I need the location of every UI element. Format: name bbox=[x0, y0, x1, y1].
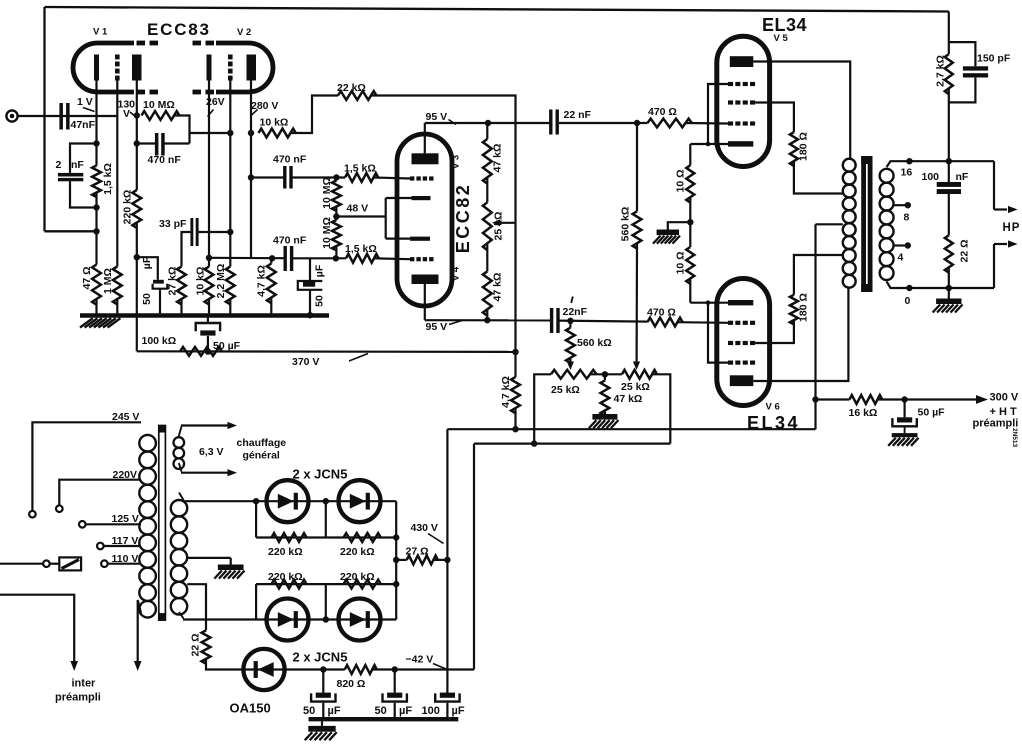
ground PSU bbox=[305, 721, 337, 740]
wire OPT center tap riser bbox=[812, 224, 818, 429]
svg-text:OA150: OA150 bbox=[230, 701, 271, 716]
svg-text:6,3 V: 6,3 V bbox=[199, 446, 224, 458]
resistor 16k dropper bbox=[816, 395, 905, 404]
wire top feedback rail bbox=[45, 7, 949, 12]
label 22 kOhm bbox=[337, 82, 366, 94]
label 100 nF bbox=[922, 171, 969, 183]
svg-text:27 Ω: 27 Ω bbox=[406, 546, 429, 558]
wire V5 cathode out bbox=[690, 143, 728, 145]
svg-text:inter: inter bbox=[72, 678, 97, 690]
ground EL34 cathodes bbox=[653, 230, 680, 244]
svg-text:général: général bbox=[243, 450, 280, 462]
svg-text:2 x JCN5: 2 x JCN5 bbox=[293, 467, 348, 482]
label V6 bbox=[766, 402, 780, 413]
wire V2 anode down bbox=[248, 81, 254, 259]
label +HT bbox=[990, 406, 1017, 418]
wire V4 anode down bbox=[424, 284, 426, 320]
label 470 nF a bbox=[148, 154, 182, 166]
resistor 47k lower bbox=[483, 271, 492, 315]
V1 grid element bbox=[115, 55, 120, 81]
ground 300V cap bbox=[888, 428, 918, 446]
wire 47k to 95V bottom bbox=[484, 309, 490, 323]
capacitor 150pF bbox=[963, 66, 988, 77]
label 110 V bbox=[112, 553, 139, 565]
label 10 Ohm V6 bbox=[675, 251, 687, 274]
label 8 bbox=[904, 212, 910, 224]
svg-text:10 MΩ: 10 MΩ bbox=[143, 99, 175, 111]
resistor 10 Ohm V6 bbox=[686, 247, 694, 284]
wire OPT secondary 0 tap bbox=[887, 282, 994, 292]
svg-text:µF: µF bbox=[328, 705, 341, 717]
label 4 bbox=[898, 252, 904, 264]
wire mains 2 bbox=[0, 595, 78, 671]
V5 g2 element bbox=[728, 100, 755, 104]
ground HV center bbox=[214, 565, 244, 579]
svg-text:50: 50 bbox=[141, 293, 153, 305]
label EL34 V5 bbox=[762, 15, 807, 35]
label 10 MOhm c bbox=[321, 217, 333, 249]
label 470 Ohm low bbox=[647, 307, 676, 319]
svg-text:25 kΩ: 25 kΩ bbox=[493, 212, 505, 241]
wire 1.5k to V3 grid bbox=[374, 178, 411, 179]
input jack terminal bbox=[6, 110, 17, 121]
label OA150 bbox=[230, 701, 271, 716]
svg-text:2,2 MΩ: 2,2 MΩ bbox=[215, 264, 227, 299]
svg-text:370 V: 370 V bbox=[292, 356, 319, 368]
svg-text:1,5 kΩ: 1,5 kΩ bbox=[102, 163, 114, 195]
capacitor 50uF bias B bbox=[383, 693, 407, 702]
wire V5 g2 out bbox=[755, 103, 794, 133]
wire V6 anode to OPT bbox=[753, 288, 848, 381]
label V1 bbox=[93, 27, 108, 38]
label 100 kOhm bbox=[142, 335, 177, 347]
potentiometer 25k bias right bbox=[622, 370, 657, 379]
svg-text:470 nF: 470 nF bbox=[273, 235, 307, 247]
resistor 10M V1-V2 coupling bbox=[142, 111, 180, 120]
resistor 1M V1 grid leak bbox=[113, 267, 122, 305]
capacitor 100nF bbox=[937, 182, 961, 194]
label 2,2 MOhm bbox=[215, 264, 227, 299]
capacitor 50uF bias A wires bbox=[322, 670, 324, 718]
label 22 nF up bbox=[564, 109, 592, 121]
wire V6 g2 out bbox=[755, 320, 794, 343]
annotation tick near 22nF bbox=[571, 297, 573, 304]
wire 220V tap bbox=[59, 480, 141, 506]
wire HV top to diodes bbox=[179, 493, 184, 501]
label 220k B bbox=[340, 546, 375, 558]
V1 anode element bbox=[132, 55, 142, 81]
OPT primary winding bbox=[843, 159, 856, 288]
capacitor 100uF main wires bbox=[446, 693, 448, 717]
label 180 Ohm V6 bbox=[798, 293, 810, 322]
V4 grid element bbox=[410, 257, 434, 261]
wire OPT secondary 8 tap bbox=[894, 202, 912, 208]
wire V3 anode up bbox=[424, 123, 426, 153]
svg-text:25 kΩ: 25 kΩ bbox=[551, 384, 580, 396]
label inter preampli bbox=[55, 678, 101, 704]
svg-text:V 2: V 2 bbox=[237, 27, 251, 38]
label V2 bbox=[237, 27, 251, 38]
wire 22k to B+ vertical bbox=[371, 96, 516, 353]
label V4 bbox=[451, 266, 462, 281]
wire 470nF to riser bbox=[164, 142, 190, 144]
label 470 Ohm up bbox=[648, 106, 677, 118]
svg-text:470 nF: 470 nF bbox=[148, 154, 182, 166]
svg-text:22 kΩ: 22 kΩ bbox=[337, 82, 366, 94]
wire 10k to 22k riser bbox=[291, 96, 339, 134]
svg-text:22 Ω: 22 Ω bbox=[190, 633, 202, 656]
svg-text:47nF: 47nF bbox=[71, 119, 96, 131]
svg-text:ECC83: ECC83 bbox=[147, 20, 211, 39]
wire cathode gnd stub bbox=[668, 222, 691, 229]
svg-text:180 Ω: 180 Ω bbox=[798, 293, 810, 322]
svg-text:EL34: EL34 bbox=[747, 413, 800, 433]
label 10 MOhm b bbox=[321, 177, 333, 209]
svg-text:95 V: 95 V bbox=[426, 321, 448, 333]
OPT core bbox=[861, 156, 872, 292]
diode JCN5 A bbox=[267, 480, 309, 522]
label 33 pF bbox=[159, 218, 187, 230]
label 25 kOhm left bbox=[551, 384, 580, 396]
transformer HV winding bbox=[171, 500, 187, 615]
svg-text:47 Ω: 47 Ω bbox=[81, 266, 93, 289]
label 95 V top bbox=[426, 111, 457, 125]
svg-text:EL34: EL34 bbox=[762, 15, 807, 35]
V1 cathode element bbox=[94, 55, 99, 81]
svg-text:50 µF: 50 µF bbox=[213, 340, 241, 352]
label 180 Ohm V5 bbox=[798, 132, 810, 161]
capacitor 47nF input bbox=[59, 103, 69, 130]
wire -42V rail bbox=[474, 443, 670, 445]
wire 33pF left to 27k bbox=[182, 232, 191, 267]
label 370 V bbox=[292, 354, 368, 369]
resistor 47ohm V1 cathode bbox=[92, 265, 101, 305]
resistor 470ohm V6 grid bbox=[648, 318, 683, 327]
wire mains in bbox=[0, 563, 59, 565]
label -42 V bbox=[406, 654, 447, 670]
V3 cathode element bbox=[412, 196, 431, 200]
label 27 kOhm bbox=[167, 267, 179, 296]
capacitor 50uF 300V wires bbox=[903, 400, 905, 418]
V5 anode element bbox=[730, 56, 754, 67]
wire 820ohm to -42V corner bbox=[372, 666, 474, 672]
svg-text:V 3: V 3 bbox=[451, 155, 462, 169]
capacitor 50uF 370V wires bbox=[207, 317, 209, 352]
svg-text:16 kΩ: 16 kΩ bbox=[849, 407, 878, 419]
resistor 22 Ohm output bbox=[945, 235, 953, 272]
svg-text:33 pF: 33 pF bbox=[159, 218, 187, 230]
svg-text:180 Ω: 180 Ω bbox=[798, 132, 810, 161]
resistor 1.5k V3 grid stopper bbox=[345, 173, 378, 182]
capacitor 2nF bbox=[58, 173, 83, 181]
label 4,7 kOhm b bbox=[500, 376, 512, 408]
wire 245V tap bbox=[32, 422, 141, 511]
capacitor 50uF V2 area bbox=[298, 281, 323, 290]
svg-text:préampli: préampli bbox=[55, 692, 101, 704]
resistor 2,7k feedback bbox=[945, 54, 953, 94]
label 1,5 kOhm b bbox=[344, 163, 376, 175]
svg-text:nF: nF bbox=[956, 171, 969, 183]
label 430 V bbox=[411, 522, 444, 544]
svg-text:100: 100 bbox=[922, 171, 940, 183]
terminal 117V bbox=[97, 543, 104, 550]
svg-text:10 kΩ: 10 kΩ bbox=[194, 267, 206, 296]
label 130 V bbox=[118, 99, 137, 121]
wire HV bottom to diodes bbox=[179, 612, 184, 619]
svg-text:2: 2 bbox=[56, 159, 62, 171]
tube EL34 V6 envelope bbox=[717, 279, 770, 406]
label 125 V bbox=[112, 513, 139, 525]
svg-text:95 V: 95 V bbox=[426, 111, 448, 123]
label 560 kOhm up bbox=[620, 207, 632, 242]
wire OA150 to 820ohm bbox=[243, 666, 344, 672]
label 48 V bbox=[347, 203, 369, 215]
label 6,3 V bbox=[199, 446, 224, 458]
label 560 kOhm low bbox=[577, 337, 612, 349]
V4 anode element bbox=[412, 275, 439, 285]
wire between diodes top bbox=[183, 498, 396, 504]
resistor 1.5k V4 grid stopper bbox=[346, 254, 379, 263]
wire 95V top bbox=[425, 120, 551, 126]
svg-text:chauffage: chauffage bbox=[237, 437, 287, 449]
tube EL34 V5 envelope bbox=[717, 36, 770, 166]
resistor 47k bias bbox=[601, 374, 610, 415]
label 50 uF 370 bbox=[213, 340, 241, 352]
label 2 nF bbox=[56, 159, 85, 171]
fuse holder bbox=[59, 557, 81, 570]
svg-text:110 V: 110 V bbox=[112, 553, 139, 565]
label 245 V bbox=[112, 411, 139, 423]
svg-text:220 kΩ: 220 kΩ bbox=[268, 546, 303, 558]
wire V1 cathode down bbox=[93, 81, 99, 166]
wire right pot to -42V bbox=[652, 374, 670, 443]
svg-text:470 nF: 470 nF bbox=[273, 154, 307, 166]
wire 300V out bbox=[901, 395, 988, 404]
svg-text:220V: 220V bbox=[113, 469, 138, 481]
V6 g1 element bbox=[728, 321, 755, 325]
label 26V bbox=[206, 96, 225, 117]
capacitor 50uF V2 area wires bbox=[307, 258, 313, 318]
wire 10M pair to lower wire bbox=[335, 246, 337, 258]
wire left feedback drop bbox=[43, 7, 45, 231]
PSU ground bus bbox=[309, 717, 459, 721]
resistor 180 Ohm V5 screen bbox=[790, 132, 798, 166]
V5 cathode element bbox=[728, 141, 753, 146]
label 95 V bottom bbox=[426, 321, 463, 334]
resistor 1.5k V1 cathode bbox=[92, 166, 101, 198]
capacitor 2nF branch wires bbox=[70, 144, 97, 208]
svg-text:150 pF: 150 pF bbox=[977, 53, 1011, 65]
terminal 110V bbox=[101, 560, 108, 567]
label 47 kOhm up bbox=[492, 144, 504, 173]
transformer primary winding bbox=[139, 435, 156, 618]
svg-text:1 V: 1 V bbox=[77, 96, 93, 108]
resistor 27k bbox=[177, 267, 186, 305]
svg-text:1 MΩ: 1 MΩ bbox=[102, 268, 114, 294]
resistor 10k V2 anode bbox=[259, 129, 296, 138]
svg-text:430 V: 430 V bbox=[411, 522, 438, 534]
wire 2.7k to 16ohm tap bbox=[948, 88, 950, 161]
label 300V bbox=[990, 392, 1019, 404]
svg-text:470 Ω: 470 Ω bbox=[647, 307, 676, 319]
resistor 2.2M V2 grid leak bbox=[226, 267, 235, 305]
wire V2 anode to 470nF b bbox=[251, 176, 284, 178]
wire 220k to 370V corner bbox=[134, 223, 140, 352]
capacitor 50uF V1 decoupling bbox=[153, 280, 168, 289]
wire V2 cathode to 470nF c bbox=[209, 255, 284, 261]
wire grid wire to 10M pair bbox=[333, 174, 339, 180]
svg-text:µF: µF bbox=[452, 705, 465, 717]
svg-text:ECC82: ECC82 bbox=[453, 183, 473, 254]
diode JCN5 D bbox=[339, 599, 381, 641]
label 27 Ohm bbox=[406, 546, 429, 558]
wire 125V tap bbox=[86, 523, 141, 525]
svg-text:47 kΩ: 47 kΩ bbox=[492, 144, 504, 173]
svg-text:245 V: 245 V bbox=[112, 411, 139, 423]
V2 grid element bbox=[228, 55, 233, 81]
svg-text:4,7 kΩ: 4,7 kΩ bbox=[256, 265, 268, 297]
label 220k D bbox=[340, 571, 375, 583]
svg-text:50: 50 bbox=[375, 705, 387, 717]
label 1V bbox=[77, 96, 95, 112]
wire 220k row1 left riser bbox=[255, 501, 257, 537]
ground hatch main bbox=[80, 318, 120, 327]
capacitor 100uF main bbox=[435, 693, 459, 702]
wire 220k row1 bbox=[256, 534, 399, 540]
svg-text:117 V: 117 V bbox=[112, 535, 139, 547]
wire 33pF right to V2 grid bbox=[199, 229, 234, 235]
wire -42V corner bbox=[473, 444, 475, 670]
wire 47k to 25k bbox=[486, 177, 488, 202]
wire 1.5k to 47ohm bbox=[93, 193, 99, 265]
V6 g2 element bbox=[728, 341, 755, 345]
capacitor 22nF upper bbox=[549, 110, 559, 135]
resistor 100k decoupling bbox=[180, 347, 222, 356]
wire 25k to 47k bbox=[486, 243, 488, 271]
label 280 V bbox=[251, 100, 278, 115]
label 4,7 kOhm a bbox=[256, 265, 268, 297]
V6 anode element bbox=[730, 375, 754, 386]
wire OPT secondary 4 tap bbox=[894, 242, 912, 248]
svg-text:V 1: V 1 bbox=[93, 27, 108, 38]
wire ECC82 cathode bracket bbox=[386, 198, 412, 239]
label 25 kOhm right bbox=[621, 381, 650, 393]
capacitor 22nF lower bbox=[550, 308, 560, 333]
svg-text:16: 16 bbox=[901, 167, 913, 179]
label 2,7 kOhm bbox=[935, 55, 947, 87]
wire 560k to left pot wiper bbox=[567, 358, 574, 370]
svg-text:2 x JCN5: 2 x JCN5 bbox=[293, 650, 348, 665]
wire 16tap to 100nF bbox=[948, 161, 950, 182]
terminal 220V bbox=[56, 505, 63, 512]
wire 470nF to 1.5k b bbox=[292, 176, 345, 178]
resistor 10 Ohm V5 bbox=[686, 165, 694, 202]
label 2 x JCN5 top bbox=[293, 467, 348, 482]
label 10 kOhm v bbox=[194, 267, 206, 296]
label 0 bbox=[905, 295, 911, 307]
wire 22nF to 470ohm upper bbox=[559, 120, 648, 126]
wire OPT center tap bbox=[816, 223, 843, 225]
V6 g3 element bbox=[728, 361, 755, 365]
wire 220k row2 mid riser bbox=[325, 584, 327, 619]
svg-text:µF: µF bbox=[141, 256, 153, 269]
label HP bbox=[1003, 222, 1021, 234]
wire V6 g3 to cathode bbox=[706, 300, 728, 362]
svg-text:50: 50 bbox=[314, 295, 326, 307]
svg-text:47 kΩ: 47 kΩ bbox=[492, 273, 504, 302]
svg-text:+ H T: + H T bbox=[990, 406, 1017, 418]
svg-text:10 MΩ: 10 MΩ bbox=[321, 177, 333, 209]
pot wiper arrow bbox=[492, 219, 516, 226]
svg-text:220 kΩ: 220 kΩ bbox=[268, 571, 303, 583]
label drawing number bbox=[1011, 428, 1018, 448]
svg-text:125 V: 125 V bbox=[112, 513, 139, 525]
svg-text:26V: 26V bbox=[206, 96, 225, 108]
wire 117V tap bbox=[104, 545, 141, 547]
wire V2 cathode down bbox=[206, 81, 212, 267]
label 16 kOhm bbox=[849, 407, 878, 419]
label 470 nF c bbox=[273, 235, 307, 247]
svg-text:1,5 kΩ: 1,5 kΩ bbox=[345, 243, 377, 255]
resistor 10M upper divider bbox=[332, 181, 341, 211]
transformer heater winding bbox=[174, 437, 185, 469]
resistor 4.7k V2 area bbox=[267, 264, 276, 304]
svg-text:25 kΩ: 25 kΩ bbox=[621, 381, 650, 393]
wire 100nF to 22ohm bbox=[948, 194, 950, 235]
wire 430V riser bbox=[444, 429, 450, 693]
wire V6 cathode out bbox=[690, 302, 728, 304]
resistor 4.7k dropper bbox=[511, 349, 520, 429]
svg-text:820 Ω: 820 Ω bbox=[337, 678, 366, 690]
resistor 22 Ohm bias bbox=[202, 630, 211, 663]
V5 g1 element bbox=[728, 121, 755, 125]
label 50 uF 300V bbox=[918, 407, 946, 419]
wire 470ohm to V5 g1 bbox=[686, 122, 729, 125]
terminal mains bbox=[43, 560, 50, 567]
transformer core bbox=[159, 426, 166, 621]
wire V1 grid to 1M bbox=[116, 81, 118, 267]
ground output bbox=[933, 288, 963, 313]
label 220 kOhm bbox=[122, 190, 134, 225]
wire 22nF to 470ohm lower bbox=[560, 318, 648, 324]
wire 220k row1 mid riser bbox=[325, 501, 327, 537]
wire 1.5k to V4 grid bbox=[374, 257, 410, 260]
label 1 MOhm bbox=[102, 268, 114, 294]
resistor 820 Ohm bbox=[345, 665, 377, 674]
V4 cathode element bbox=[410, 237, 430, 241]
capacitor 470nF V2-V4 bbox=[284, 246, 294, 271]
label 117 V bbox=[112, 535, 139, 547]
svg-text:8: 8 bbox=[904, 212, 910, 224]
svg-text:47 kΩ: 47 kΩ bbox=[614, 393, 643, 405]
wire 370V rail bbox=[137, 348, 516, 354]
wire V5 g3 to cathode bbox=[706, 84, 728, 146]
svg-text:−42 V: −42 V bbox=[406, 654, 434, 666]
svg-text:µF: µF bbox=[399, 705, 412, 717]
svg-text:10 Ω: 10 Ω bbox=[675, 169, 687, 192]
wire primary bottom to preamp bbox=[134, 600, 142, 671]
svg-text:22 nF: 22 nF bbox=[564, 109, 592, 121]
wire HP plus bbox=[994, 161, 1018, 213]
capacitor 470nF V2-V3 bbox=[283, 166, 293, 189]
svg-text:V: V bbox=[123, 108, 130, 120]
label 22 Ohm bias bbox=[190, 633, 202, 656]
svg-text:nF: nF bbox=[71, 159, 84, 171]
wire 220k row2 left riser bbox=[255, 584, 257, 619]
svg-text:4: 4 bbox=[898, 252, 904, 264]
terminal 125V bbox=[79, 521, 86, 528]
diode JCN5 B bbox=[339, 480, 381, 522]
